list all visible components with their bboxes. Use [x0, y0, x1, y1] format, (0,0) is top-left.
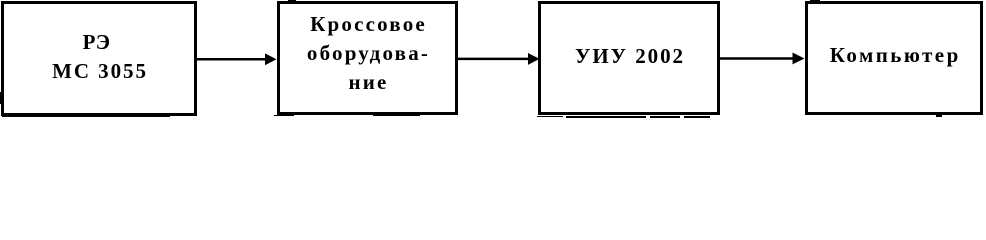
block B1: РЭ МС 3055 [1, 1, 197, 116]
scan artifact: smudge line under block B1 [2, 115, 64, 117]
scan artifact: dash under B2 right part [373, 115, 420, 117]
scan artifact: tick above B4 top border [810, 0, 820, 2]
wire arrow A1: B1 to B2 [197, 53, 277, 65]
block B3: УИУ 2002 [538, 1, 720, 116]
wire arrow A2: B2 to B3 [458, 53, 540, 65]
scan artifact: tick above B2 top border [288, 0, 296, 3]
block B4: Компьютер [805, 1, 983, 116]
scan artifact: dash under B4 [936, 115, 942, 117]
scan artifact: smudge line under block B3 [537, 116, 563, 118]
block B2: Кроссовое оборудование [277, 1, 458, 116]
wire arrow A3: B3 to B4 [720, 53, 805, 65]
scan artifact: dash under B2 left corner [274, 115, 294, 117]
scan artifact: tick on left edge of B1 [0, 92, 2, 104]
